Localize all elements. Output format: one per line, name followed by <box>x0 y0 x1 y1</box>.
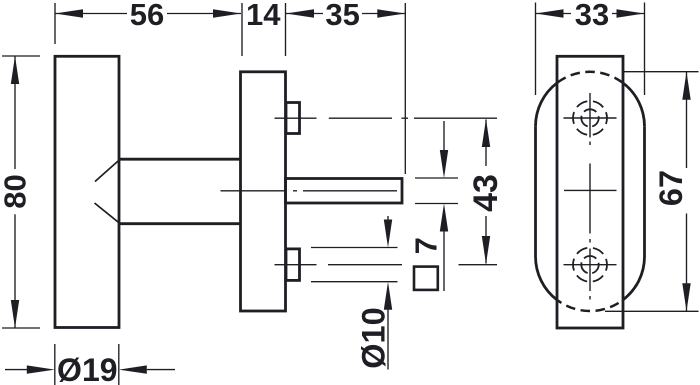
svg-text:Ø10: Ø10 <box>355 307 391 368</box>
svg-text:43: 43 <box>467 174 505 212</box>
svg-text:35: 35 <box>325 0 359 32</box>
svg-text:33: 33 <box>575 0 609 32</box>
svg-text:80: 80 <box>0 174 33 208</box>
svg-text:Ø19: Ø19 <box>57 352 117 385</box>
svg-text:67: 67 <box>653 170 689 206</box>
svg-text:14: 14 <box>246 0 281 32</box>
svg-text:7: 7 <box>408 237 443 254</box>
svg-text:56: 56 <box>130 0 164 32</box>
